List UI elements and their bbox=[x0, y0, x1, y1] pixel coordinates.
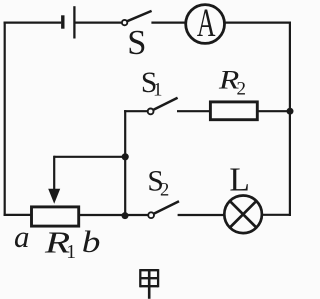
wire: left vertical bbox=[4, 22, 6, 216]
wire: lamp to bottom-right corner bbox=[262, 214, 291, 216]
wire: switch S2 to lamp bbox=[178, 214, 224, 216]
wire: switch S to ammeter bbox=[151, 22, 185, 24]
svg-text:1: 1 bbox=[153, 80, 163, 101]
svg-text:L: L bbox=[229, 161, 249, 198]
svg-text:A: A bbox=[197, 0, 216, 45]
switch S2 arm bbox=[154, 201, 179, 213]
junction node: bottom branch on middle vertical bbox=[122, 212, 129, 219]
svg-text:2: 2 bbox=[237, 78, 247, 99]
resistor R2 box bbox=[210, 102, 257, 120]
wire: top-left horizontal (battery to left corner) bbox=[4, 22, 62, 24]
wire: middle vertical to switch S1 bbox=[124, 110, 147, 112]
ammeter U: circle bbox=[186, 5, 225, 44]
switch S pivot circle bbox=[122, 20, 127, 25]
junction node: wiper wire on middle vertical bbox=[122, 153, 129, 160]
lamp L: circle bbox=[224, 196, 262, 234]
switch S arm bbox=[127, 11, 151, 21]
svg-text:S: S bbox=[127, 24, 146, 62]
svg-text:2: 2 bbox=[160, 180, 169, 200]
wire: switch S1 to resistor R2 bbox=[177, 110, 210, 112]
switch S1 arm bbox=[153, 98, 177, 110]
caption 甲 (drawn) bbox=[140, 269, 158, 299]
wire: battery to switch S bbox=[74, 22, 121, 24]
battery: short thick plate (negative) bbox=[61, 15, 64, 28]
switch S2 pivot circle bbox=[148, 212, 154, 218]
rheostat wiper arrow (vertical with arrowhead) bbox=[53, 156, 55, 190]
svg-text:1: 1 bbox=[66, 242, 76, 263]
wire: rheostat to switch S2 bbox=[79, 214, 148, 216]
switch S1 pivot circle bbox=[148, 109, 154, 115]
wire: rheostat wiper horizontal to middle vertical bbox=[54, 156, 125, 158]
wire: resistor R2 to right vertical bbox=[259, 110, 291, 112]
wire: right vertical bbox=[289, 22, 291, 217]
battery: long thin plate (positive) bbox=[73, 6, 75, 38]
svg-text:b: b bbox=[82, 224, 101, 259]
junction node: R2 branch to right wire bbox=[287, 108, 294, 115]
wire: middle vertical (S1 branch down to bottom branch) bbox=[124, 110, 126, 216]
wire: bottom-left horizontal to rheostat bbox=[4, 214, 31, 216]
rheostat R1 box bbox=[32, 207, 79, 226]
lamp L: X cross bbox=[230, 201, 256, 227]
svg-text:a: a bbox=[14, 219, 30, 254]
wire: ammeter to top-right corner bbox=[225, 22, 292, 24]
